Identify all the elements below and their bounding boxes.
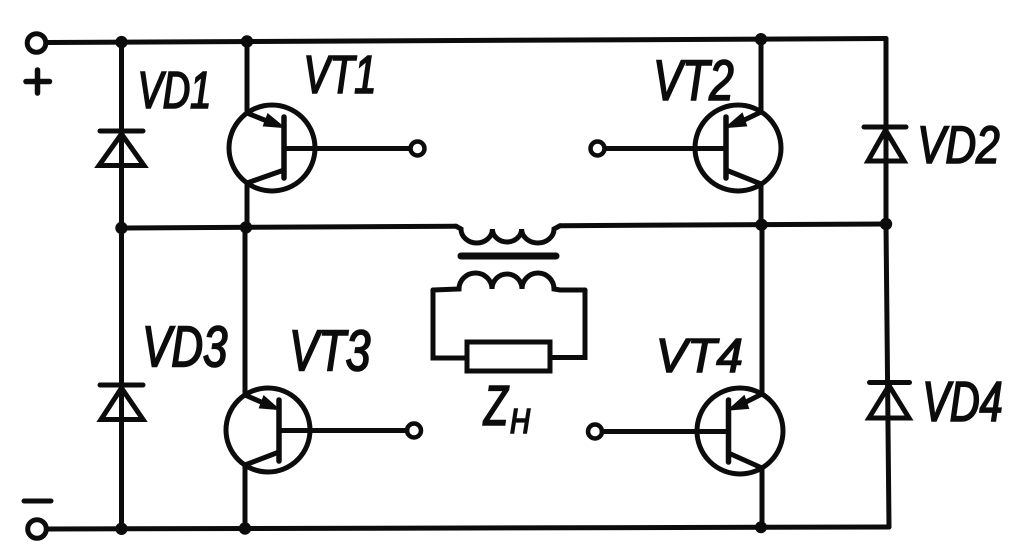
label VD3	[146, 326, 227, 367]
node: mid rail / VD2-VD4	[880, 218, 892, 230]
transistor VT4	[588, 225, 783, 528]
label VT4	[660, 339, 741, 372]
label H	[511, 409, 530, 433]
terminal plus (top-left input)	[27, 34, 46, 53]
wire: top rail (+)	[47, 39, 887, 43]
transformer secondary winding	[433, 273, 585, 290]
diode VD2	[864, 127, 906, 161]
node: top rail / VD1	[115, 36, 127, 48]
label Z	[483, 386, 509, 425]
transformer primary winding	[456, 226, 560, 243]
node: top rail / VT2 collector	[755, 33, 767, 45]
wire: load loop right	[550, 290, 585, 358]
wire: right diode column (VD2/VD4 branch)	[886, 39, 889, 528]
diode VD4	[869, 383, 910, 419]
wire: left diode column (VD1/VD3 branch)	[119, 42, 124, 529]
wire: load loop left	[433, 290, 467, 358]
minus sign	[24, 499, 51, 504]
transistor VT3	[226, 227, 421, 528]
transformer core	[461, 253, 556, 260]
node: bottom rail / VT3 emitter	[239, 522, 251, 534]
transistor VT2	[591, 39, 782, 225]
label VT3	[293, 330, 370, 371]
node: bottom rail / VD3	[115, 523, 127, 535]
transistor VT1	[229, 42, 425, 228]
label VD4	[926, 382, 1001, 421]
resistor Zн	[467, 342, 550, 371]
wire: bottom rail (-)	[47, 527, 889, 529]
terminal minus (bottom-left input)	[28, 520, 47, 539]
node: mid rail / VT2-VT4	[755, 219, 767, 231]
diode VD3	[100, 385, 143, 420]
node: mid rail / VD1-VD3	[115, 222, 127, 234]
node: mid rail / VT1-VT3	[240, 221, 252, 233]
label VD1	[141, 72, 208, 108]
label VD2	[921, 126, 999, 163]
plus sign	[26, 70, 50, 93]
node: top rail / VT1 collector	[241, 35, 253, 47]
wire: mid rail right segment	[560, 224, 886, 226]
wire: mid rail left segment	[122, 226, 457, 228]
node: bottom rail / VT4 emitter	[755, 521, 767, 533]
diode VD1	[99, 131, 144, 166]
label VT1	[307, 56, 373, 93]
label VT2	[657, 60, 733, 100]
